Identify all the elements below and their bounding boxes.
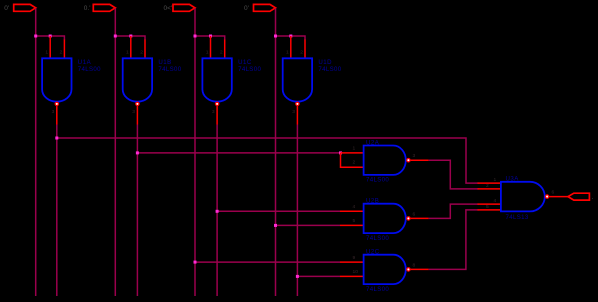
svg-text:1: 1: [286, 50, 289, 56]
wire: jumper to U1A inputs: [36, 36, 65, 40]
wire: U3A output to output port: [549, 196, 568, 198]
wire: U1D pin 1 stub: [290, 36, 292, 58]
wire: net U1C-out to U2B pin1: [217, 210, 340, 212]
U1D output bubble: [295, 102, 300, 107]
junction on U1A output at y=138: [55, 137, 58, 140]
svg-text:U2B: U2B: [366, 198, 379, 205]
wire: U1B output vertical net: [136, 125, 138, 297]
svg-text:1: 1: [494, 177, 497, 183]
wire: U3A pin1 stub: [478, 182, 501, 184]
junction on U1D output at y=276.4: [296, 275, 299, 278]
svg-text:2: 2: [140, 50, 143, 56]
wire: U1A output stub: [56, 106, 58, 124]
svg-text:4: 4: [494, 198, 497, 204]
junction at U2A input tie: [339, 151, 342, 154]
svg-text:0': 0': [4, 5, 9, 12]
svg-text:U2A: U2A: [366, 139, 380, 146]
wire: port P2 vertical net: [114, 8, 116, 296]
NAND gate U1C body (74LS00, inverter wired): [202, 58, 231, 101]
wire: U2A pin2 tie jumper: [341, 153, 364, 167]
svg-text:1: 1: [126, 50, 129, 56]
junction at port P1 / jumper tee: [34, 35, 37, 38]
svg-text:0.': 0.': [84, 5, 91, 12]
input port P4 (0'): [254, 4, 276, 11]
junction at U1C pin1 tap: [209, 35, 212, 38]
U2C output bubble: [406, 267, 411, 272]
wire: net port4 to U2B pin2: [276, 224, 341, 226]
wire: net port3 to U2C pin1: [195, 261, 340, 263]
svg-text:1: 1: [206, 50, 209, 56]
svg-text:74LS00: 74LS00: [366, 177, 389, 184]
svg-text:74LS00: 74LS00: [78, 66, 101, 73]
input port P1 (0'): [14, 4, 36, 11]
svg-text:74LS00: 74LS00: [366, 286, 389, 293]
wire: U2B pin2 stub: [340, 224, 364, 226]
wire: U3A pin5 stub: [478, 209, 501, 211]
output port tag: [568, 193, 589, 200]
svg-text:9: 9: [353, 255, 356, 261]
junction at port P4 / jumper tee: [274, 35, 277, 38]
svg-text:8: 8: [413, 262, 416, 268]
wire: U1A pin 2 stub: [63, 40, 65, 59]
svg-text:74LS13: 74LS13: [506, 214, 529, 221]
wire: U1D output vertical net: [296, 125, 298, 297]
wire: U1A output vertical net: [56, 125, 58, 297]
svg-text:1: 1: [353, 146, 356, 152]
svg-text:U2C: U2C: [366, 249, 380, 256]
wire: port P3 vertical net: [194, 8, 196, 296]
svg-text:U1A: U1A: [78, 59, 92, 66]
svg-text:3: 3: [212, 109, 215, 115]
junction at port P2 / jumper tee: [114, 35, 117, 38]
svg-text:3: 3: [292, 109, 295, 115]
NAND gate U1B body (74LS00, inverter wired): [123, 58, 152, 101]
wire: U3A pin2 stub: [478, 188, 501, 190]
svg-text:3: 3: [132, 109, 135, 115]
svg-text:.: .: [592, 194, 594, 201]
junction at U1A pin1 tap: [49, 35, 52, 38]
NAND gate U1D body (74LS00, inverter wired): [283, 58, 312, 101]
wire: port P4 vertical net: [275, 8, 277, 296]
wire: U1A pin 1 stub: [49, 36, 51, 58]
wire: U1B pin 1 stub: [130, 36, 132, 58]
NAND gate U2B body (74LS00): [364, 204, 406, 233]
svg-text:10: 10: [353, 269, 359, 275]
svg-text:2: 2: [60, 50, 63, 56]
svg-text:5: 5: [486, 204, 489, 210]
wire: U1B output stub: [136, 106, 138, 124]
svg-text:U1C: U1C: [238, 59, 252, 66]
svg-text:6: 6: [413, 211, 416, 217]
svg-text:74LS00: 74LS00: [318, 66, 341, 73]
wire: U1C pin 2 stub: [224, 40, 226, 59]
wire: U1D output stub: [296, 106, 298, 124]
svg-text:2: 2: [486, 183, 489, 189]
svg-text:0<': 0<': [164, 5, 173, 12]
junction at port P3 / jumper tee: [194, 35, 197, 38]
svg-text:U1B: U1B: [158, 59, 171, 66]
wire: jumper to U1D inputs: [276, 36, 306, 40]
svg-text:4: 4: [353, 204, 356, 210]
wire: net U2B-out to U3A pin4: [429, 204, 479, 218]
NAND gate U2A body (74LS00): [364, 146, 406, 175]
svg-text:0': 0': [244, 5, 249, 12]
wire: U3A pin4 stub: [478, 203, 501, 205]
junction on U1C output at y=211.3: [216, 210, 219, 213]
wire: U2B output stub: [411, 217, 429, 219]
wire: jumper to U1B inputs: [115, 36, 145, 40]
wire: net U2A-out to U3A pin2: [429, 160, 479, 189]
wire: jumper to U1C inputs: [195, 36, 225, 40]
wire: U1C output vertical net: [216, 125, 218, 297]
U1C output bubble: [215, 102, 220, 107]
U3A output bubble: [545, 194, 550, 199]
wire: U2C pin1 stub: [340, 261, 364, 263]
input port P2 (0.'): [93, 4, 115, 11]
svg-text:1: 1: [45, 50, 48, 56]
svg-text:3: 3: [52, 109, 55, 115]
wire: U2B pin1 stub: [340, 210, 364, 212]
svg-text:2: 2: [353, 160, 356, 166]
NAND gate U1A body (74LS00, inverter wired): [42, 58, 71, 101]
wire: U1B pin 2 stub: [144, 40, 146, 59]
U1A output bubble: [55, 102, 60, 107]
wire: net U1B-out to U2A inputs: [137, 152, 340, 154]
wire: net U2C-out to U3A pin5: [429, 210, 479, 270]
svg-text:2: 2: [300, 50, 303, 56]
svg-text:74LS00: 74LS00: [366, 235, 389, 242]
wire: U2A output stub: [411, 159, 429, 161]
svg-text:74LS00: 74LS00: [238, 66, 261, 73]
U2B output bubble: [406, 216, 411, 221]
svg-text:74LS00: 74LS00: [158, 66, 181, 73]
wire: net U1D-out to U2C pin2: [297, 275, 340, 277]
wire: U1C output stub: [216, 106, 218, 124]
NAND gate U3A body (74LS13 4-input): [501, 182, 545, 212]
svg-text:2: 2: [220, 50, 223, 56]
input port P3 (0<'): [173, 4, 195, 11]
U2A output bubble: [406, 158, 411, 163]
junction on U1B output at y=152.9: [136, 151, 139, 154]
junction at U1D pin1 tap: [289, 35, 292, 38]
svg-text:3: 3: [413, 153, 416, 159]
U1B output bubble: [135, 102, 140, 107]
wire: net U1A-out to U3A pin1 (horizontal run): [57, 138, 479, 183]
wire: U2C output stub: [411, 268, 429, 270]
svg-text:5: 5: [353, 218, 356, 224]
junction on port4 net at y=225.4: [274, 224, 277, 227]
svg-text:6: 6: [552, 189, 555, 195]
junction on port3 net at y=262.1: [194, 261, 197, 264]
NAND gate U2C body (74LS00): [364, 255, 406, 284]
wire: U1D pin 2 stub: [304, 40, 306, 59]
svg-text:U3A: U3A: [506, 175, 520, 182]
wire: U1C pin 1 stub: [210, 36, 212, 58]
junction at U1B pin1 tap: [129, 35, 132, 38]
wire: U2A pin1 stub: [341, 152, 364, 154]
wire: U2C pin2 stub: [340, 275, 364, 277]
svg-text:U1D: U1D: [318, 59, 332, 66]
wire: port P1 vertical net: [35, 8, 37, 296]
